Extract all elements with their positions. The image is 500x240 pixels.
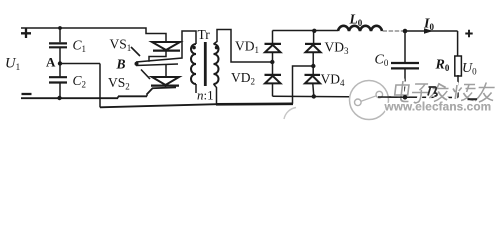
svg-text:C2: C2 xyxy=(73,73,87,90)
svg-text:n:1: n:1 xyxy=(197,88,214,103)
svg-text:C1: C1 xyxy=(73,38,87,55)
svg-text:Tr: Tr xyxy=(198,27,211,42)
svg-text:VD3: VD3 xyxy=(325,40,350,57)
svg-text:VS1: VS1 xyxy=(110,37,132,54)
svg-text:VS2: VS2 xyxy=(108,75,130,92)
svg-text:U1: U1 xyxy=(5,56,20,74)
svg-text:www.elecfans.com: www.elecfans.com xyxy=(384,100,492,114)
svg-text:C0: C0 xyxy=(375,53,389,69)
svg-text:A: A xyxy=(46,55,56,70)
svg-text:L0: L0 xyxy=(349,12,363,29)
svg-text:I0: I0 xyxy=(423,17,434,33)
svg-text:B: B xyxy=(116,57,126,72)
svg-text:VD4: VD4 xyxy=(321,72,346,89)
svg-text:U0: U0 xyxy=(462,61,477,77)
svg-text:VD2: VD2 xyxy=(231,70,255,87)
svg-text:VD1: VD1 xyxy=(235,39,259,56)
svg-text:R0: R0 xyxy=(435,58,450,74)
